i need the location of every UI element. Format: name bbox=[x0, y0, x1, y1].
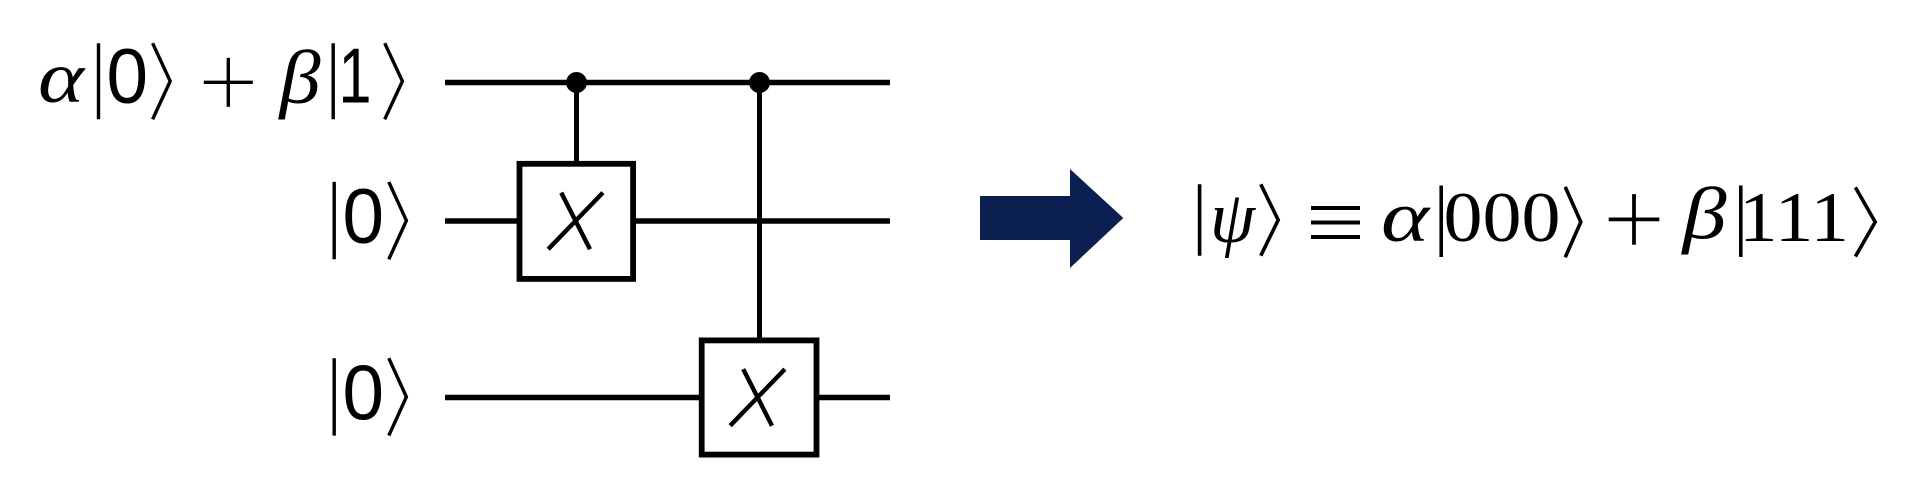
wire qubit2 left segment bbox=[445, 395, 701, 401]
X gate box 2 bbox=[702, 340, 817, 454]
formula plus bbox=[1609, 217, 1660, 221]
formula ket bar psi bbox=[1198, 184, 1202, 255]
svg-text:α: α bbox=[1381, 177, 1431, 257]
label qubit0 plus bbox=[204, 81, 253, 84]
svg-text:β: β bbox=[277, 36, 320, 120]
X gate box 1 bbox=[520, 164, 634, 279]
label qubit0 ket bar 1 bbox=[97, 43, 100, 119]
wire qubit0 bbox=[445, 80, 890, 86]
formula rangle psi bbox=[1261, 184, 1278, 255]
svg-text:0: 0 bbox=[343, 172, 385, 260]
svg-text:ψ: ψ bbox=[1210, 177, 1257, 259]
svg-text:111: 111 bbox=[1739, 179, 1849, 257]
label qubit2 rangle bbox=[389, 358, 407, 435]
svg-text:0: 0 bbox=[107, 32, 149, 120]
label qubit0 rangle 2 bbox=[385, 43, 403, 119]
formula ket bar 111 bbox=[1739, 186, 1743, 258]
label qubit1 rangle bbox=[389, 182, 407, 259]
formula ket bar 000 bbox=[1439, 186, 1443, 258]
wire qubit2 right stub bbox=[817, 395, 890, 401]
formula rangle 111 bbox=[1855, 187, 1875, 256]
svg-text:0: 0 bbox=[343, 348, 385, 436]
control line CNOT1 bbox=[574, 83, 579, 164]
control dot CNOT2 bbox=[749, 72, 770, 93]
label qubit2 ket bar bbox=[333, 358, 336, 435]
formula rangle 000 bbox=[1565, 187, 1581, 257]
X gate 2 letter stroke 2 bbox=[730, 369, 785, 426]
arrow (implies) bbox=[980, 169, 1123, 268]
control line CNOT2 bbox=[757, 83, 762, 341]
svg-text:β: β bbox=[1680, 174, 1727, 256]
svg-text:1: 1 bbox=[339, 32, 372, 120]
X gate 1 letter stroke 2 bbox=[548, 193, 603, 250]
X gate 2 letter stroke 1 bbox=[743, 369, 772, 426]
label qubit0 ket bar 2 bbox=[332, 43, 335, 119]
wire qubit1 left stub bbox=[445, 218, 519, 224]
label qubit0 rangle 1 bbox=[153, 43, 171, 119]
label qubit1 ket bar bbox=[333, 182, 336, 259]
svg-text:000: 000 bbox=[1444, 179, 1561, 257]
X gate 1 letter stroke 1 bbox=[561, 193, 590, 250]
wire qubit1 right segment bbox=[634, 218, 890, 224]
formula equiv sign bbox=[1311, 206, 1360, 210]
control dot CNOT1 bbox=[566, 72, 587, 93]
svg-text:α: α bbox=[38, 37, 86, 118]
